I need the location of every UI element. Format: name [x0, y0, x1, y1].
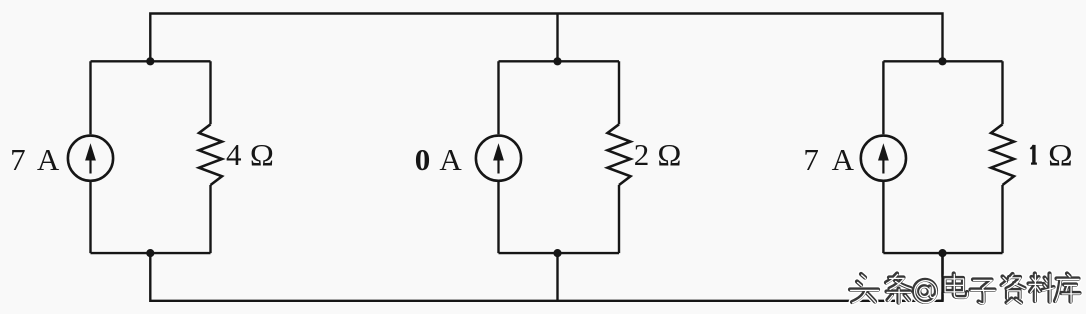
svg-text:Ω: Ω [1048, 137, 1073, 172]
resistor R3 (1 ohm) [991, 124, 1014, 185]
node bottom-left junction [146, 249, 154, 257]
current source I3 (7 A) [861, 136, 906, 181]
watermark 头条@电子资料库 [850, 274, 1080, 304]
current source I2 (0 A) [476, 136, 521, 181]
wire top rail [150, 14, 942, 62]
node bottom-right junction [938, 249, 946, 257]
wire left branch bottom [91, 252, 211, 254]
wire right branch bottom [883, 252, 1002, 254]
node top-left junction [146, 57, 154, 65]
wire middle branch right vertical (resistor leads) [618, 61, 620, 253]
label 1 ohm [1030, 145, 1037, 164]
svg-text:7 A: 7 A [10, 142, 60, 177]
svg-text:4: 4 [226, 137, 242, 172]
svg-text:0 A: 0 A [415, 142, 463, 177]
node top-right junction [938, 57, 946, 65]
svg-text:Ω: Ω [250, 137, 274, 172]
current source I1 (7 A) [68, 136, 113, 181]
node bottom-middle junction [553, 249, 561, 257]
wire right branch top [883, 60, 1002, 62]
wire right branch right vertical (resistor leads) [1001, 61, 1003, 253]
wire bottom rail [150, 253, 942, 301]
wire left branch right vertical (resistor leads) [209, 61, 211, 253]
wire middle branch bottom [499, 252, 620, 254]
resistor R1 (4 ohm) [199, 124, 222, 185]
wire top middle drop [556, 14, 558, 62]
node top-middle junction [553, 57, 561, 65]
wire right bottom drop (drawn over watermark) [938, 250, 943, 301]
svg-text:7 A: 7 A [803, 142, 854, 177]
wire middle branch left vertical (source leads) [497, 61, 499, 253]
wire right branch left vertical (source leads) [882, 61, 884, 253]
svg-text:2: 2 [634, 137, 650, 172]
wire middle branch top [499, 60, 620, 62]
wire left branch left vertical (source leads) [89, 61, 91, 253]
resistor R2 (2 ohm) [608, 124, 631, 185]
wire left branch top [91, 60, 211, 62]
svg-text:Ω: Ω [657, 137, 681, 172]
